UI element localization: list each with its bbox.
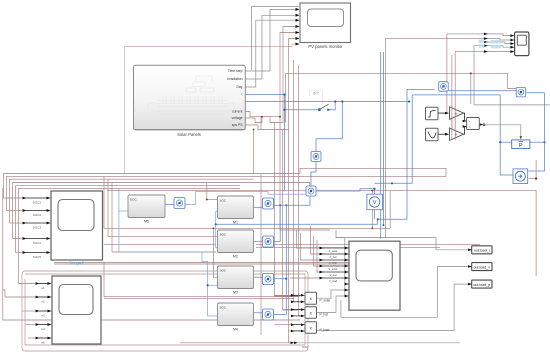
wire cT1 feed	[407, 88, 435, 90]
wire scope row feeds	[296, 230, 320, 248]
wire lower scope feeds	[3, 188, 300, 320]
wire cT2 out	[526, 92, 544, 94]
wire M5 out route	[185, 192, 306, 205]
switch breaker	[310, 91, 332, 111]
outport out.load_v	[468, 263, 492, 271]
svg-text:M4: M4	[233, 328, 238, 332]
gain G2	[438, 128, 464, 140]
wire gray top right	[474, 104, 550, 106]
wire V bottom link	[374, 210, 376, 220]
svg-text:SOC5: SOC5	[33, 255, 42, 259]
converter c1	[263, 198, 274, 209]
svg-text:V: V	[373, 200, 377, 206]
wire scope2 stub SOC3	[10, 222, 23, 224]
wire voltage out	[245, 33, 299, 123]
svg-text:SOC3: SOC3	[33, 226, 42, 230]
node SOC label	[295, 342, 460, 344]
wire vert 274	[274, 123, 298, 297]
wire outport i	[336, 238, 472, 250]
wire left bundle h3	[10, 179, 254, 223]
subsystem M5	[128, 195, 165, 224]
svg-text:Irradiation: Irradiation	[227, 77, 242, 81]
wire logic out to P	[485, 125, 521, 137]
logic block AND	[463, 113, 485, 134]
wire solar blue2 bus	[245, 101, 410, 103]
wire blue bus y252	[119, 252, 218, 316]
wire left bundle h2	[7, 176, 277, 210]
converter c4	[263, 309, 274, 320]
wire product feeders	[274, 294, 301, 296]
block P controller	[512, 136, 530, 149]
svg-text:voltage: voltage	[232, 116, 243, 120]
svg-text:SOC4: SOC4	[33, 241, 42, 245]
wire vert 262	[260, 117, 262, 130]
wire mid horizontals	[207, 199, 218, 201]
svg-text:e3: e3	[41, 314, 45, 318]
svg-text:out.load_p: out.load_p	[473, 283, 490, 287]
wire timestep to monitor	[245, 9, 299, 71]
svg-text:M2: M2	[233, 255, 238, 259]
wire left bundle h4	[13, 183, 310, 239]
svg-text:V_solar: V_solar	[328, 267, 337, 271]
converter c_sw	[311, 152, 321, 162]
GRAY WIRES	[245, 7, 550, 331]
svg-text:PV panels monitor: PV panels monitor	[308, 44, 343, 49]
wire sps branch	[253, 130, 255, 174]
converter cT1	[439, 82, 449, 92]
wire scope loop around	[336, 230, 345, 238]
converter cB mid	[306, 186, 316, 196]
wire left bundle h6	[19, 188, 241, 283]
block circle-arrow meter	[513, 169, 528, 184]
wire sw conv to conv2	[311, 162, 316, 187]
svg-text:e1: e1	[41, 286, 45, 290]
subsystem M1	[218, 196, 254, 225]
wire vert 288.5	[288, 130, 290, 343]
wire maroon pair mid	[293, 60, 295, 302]
svg-text:A_bat: A_bat	[329, 255, 336, 259]
svg-text:SOC: SOC	[220, 269, 227, 273]
svg-text:e2: e2	[41, 300, 45, 304]
wire P_bat out	[317, 296, 345, 312]
wire loop around scope lower	[22, 271, 308, 351]
scope lower-left	[36, 276, 102, 345]
wire overlays crossing blocks	[452, 106, 455, 140]
svg-text:V_load: V_load	[329, 279, 338, 283]
svg-text:Solar Panels: Solar Panels	[177, 132, 201, 137]
wire switch input	[284, 95, 286, 192]
wire scope2 stub SOC5	[16, 252, 23, 254]
svg-text:M1: M1	[233, 221, 238, 225]
wire y73.4 cross	[286, 73, 518, 122]
svg-text:M5: M5	[144, 220, 149, 224]
svg-text:SOC: SOC	[220, 233, 227, 237]
svg-text:A_bigC: A_bigC	[329, 261, 338, 265]
scope Scope2	[23, 191, 103, 266]
svg-text:e5: e5	[41, 341, 45, 345]
wire M1 M2 feed vert	[215, 211, 217, 247]
svg-text:out.load_i: out.load_i	[474, 249, 490, 253]
converter c3	[263, 274, 274, 285]
svg-text:M3: M3	[233, 291, 238, 295]
wire M2 conv out	[254, 240, 263, 242]
svg-text:SOC1: SOC1	[33, 201, 42, 205]
wire M5 input	[118, 188, 120, 252]
svg-text:V_bat: V_bat	[329, 273, 336, 277]
svg-text:A_solar: A_solar	[328, 249, 337, 253]
wire outport v	[341, 267, 472, 318]
scope load (bottom big)	[320, 241, 401, 310]
wire P loop	[500, 95, 513, 175]
wire scope2 stub SOC2	[7, 210, 23, 212]
subsystem Solar Panels	[134, 65, 246, 137]
lookup table L1	[426, 107, 439, 120]
wire P_solar out	[317, 290, 345, 298]
wire long blue y224.3	[216, 219, 378, 224]
svg-text:SOC: SOC	[220, 306, 227, 310]
svg-text:current: current	[232, 110, 243, 114]
wire conv2 out	[316, 189, 374, 191]
wire monitor riser tall	[251, 7, 253, 71]
product P_load	[291, 322, 330, 334]
BLUE WIRES	[119, 52, 546, 316]
wire outport p (from P_load)	[316, 284, 471, 330]
svg-text:P_solar: P_solar	[320, 299, 332, 303]
product P_solar	[291, 292, 331, 304]
wire M1 conv out	[254, 206, 263, 208]
converter cT2	[516, 87, 526, 97]
converter c2	[263, 236, 274, 247]
converter c5	[174, 198, 185, 209]
svg-text:P_bat: P_bat	[320, 313, 328, 317]
svg-text:sps PS: sps PS	[232, 123, 243, 127]
wire switch out	[331, 102, 336, 110]
svg-text:Time step: Time step	[228, 69, 243, 73]
lookup table L2	[426, 128, 439, 141]
wire V top link	[374, 189, 376, 195]
wire blue dots	[408, 100, 410, 102]
wire M3 conv out	[254, 276, 263, 278]
wire blue vert 408.5	[378, 89, 407, 219]
wire current out	[245, 27, 299, 123]
svg-text:Day: Day	[236, 85, 242, 89]
wire scope2 stub SOC4	[13, 238, 23, 240]
scope top-right	[479, 32, 529, 56]
wire day to monitor	[245, 20, 299, 87]
wire loop inner lower	[25, 274, 305, 345]
subsystem M4	[218, 303, 254, 332]
outport out.load_i	[468, 246, 492, 254]
svg-text:e4: e4	[41, 327, 45, 331]
wire right risers to top scope	[386, 39, 487, 238]
outport out.load_p	[468, 280, 492, 288]
wire M4 conv out	[254, 312, 263, 314]
svg-text:SOC: SOC	[302, 345, 309, 349]
product P_bat	[291, 307, 328, 319]
scope PV panels monitor	[296, 3, 351, 49]
subsystem M2	[218, 230, 254, 259]
block V meter	[367, 194, 383, 210]
wire scope2 stub SOC1	[4, 197, 23, 199]
svg-text:SOC: SOC	[130, 198, 137, 202]
svg-text:SOC2: SOC2	[33, 213, 42, 217]
wire pink feed to monitor in7	[125, 44, 299, 174]
wire top scope feed steps	[487, 34, 514, 36]
wire right maroon loop	[107, 191, 536, 276]
wire blue verts 381/383	[380, 52, 382, 239]
svg-text:t: t	[242, 93, 243, 97]
wire vert 282.7	[283, 130, 298, 311]
svg-text:out.load_v: out.load_v	[474, 265, 491, 269]
wire solar t bus	[245, 94, 284, 96]
wire cT1 out	[449, 90, 518, 92]
wire sps out	[245, 39, 299, 130]
wire left bundle h5	[16, 186, 241, 253]
wire M3 in	[208, 284, 218, 286]
svg-text:P_load: P_load	[320, 328, 330, 332]
svg-text:SOC: SOC	[220, 199, 227, 203]
svg-text:P: P	[519, 143, 523, 149]
svg-text:Scope2: Scope2	[69, 261, 84, 266]
gain G1	[438, 107, 464, 119]
wire vert 280	[280, 117, 330, 230]
node signal tags	[479, 40, 502, 49]
wire M5 out stub	[165, 204, 174, 206]
wire left bundle h1	[4, 168, 447, 198]
wire irradiation to monitor	[245, 15, 299, 79]
subsystem M3	[218, 266, 254, 295]
junction dots	[279, 116, 281, 118]
